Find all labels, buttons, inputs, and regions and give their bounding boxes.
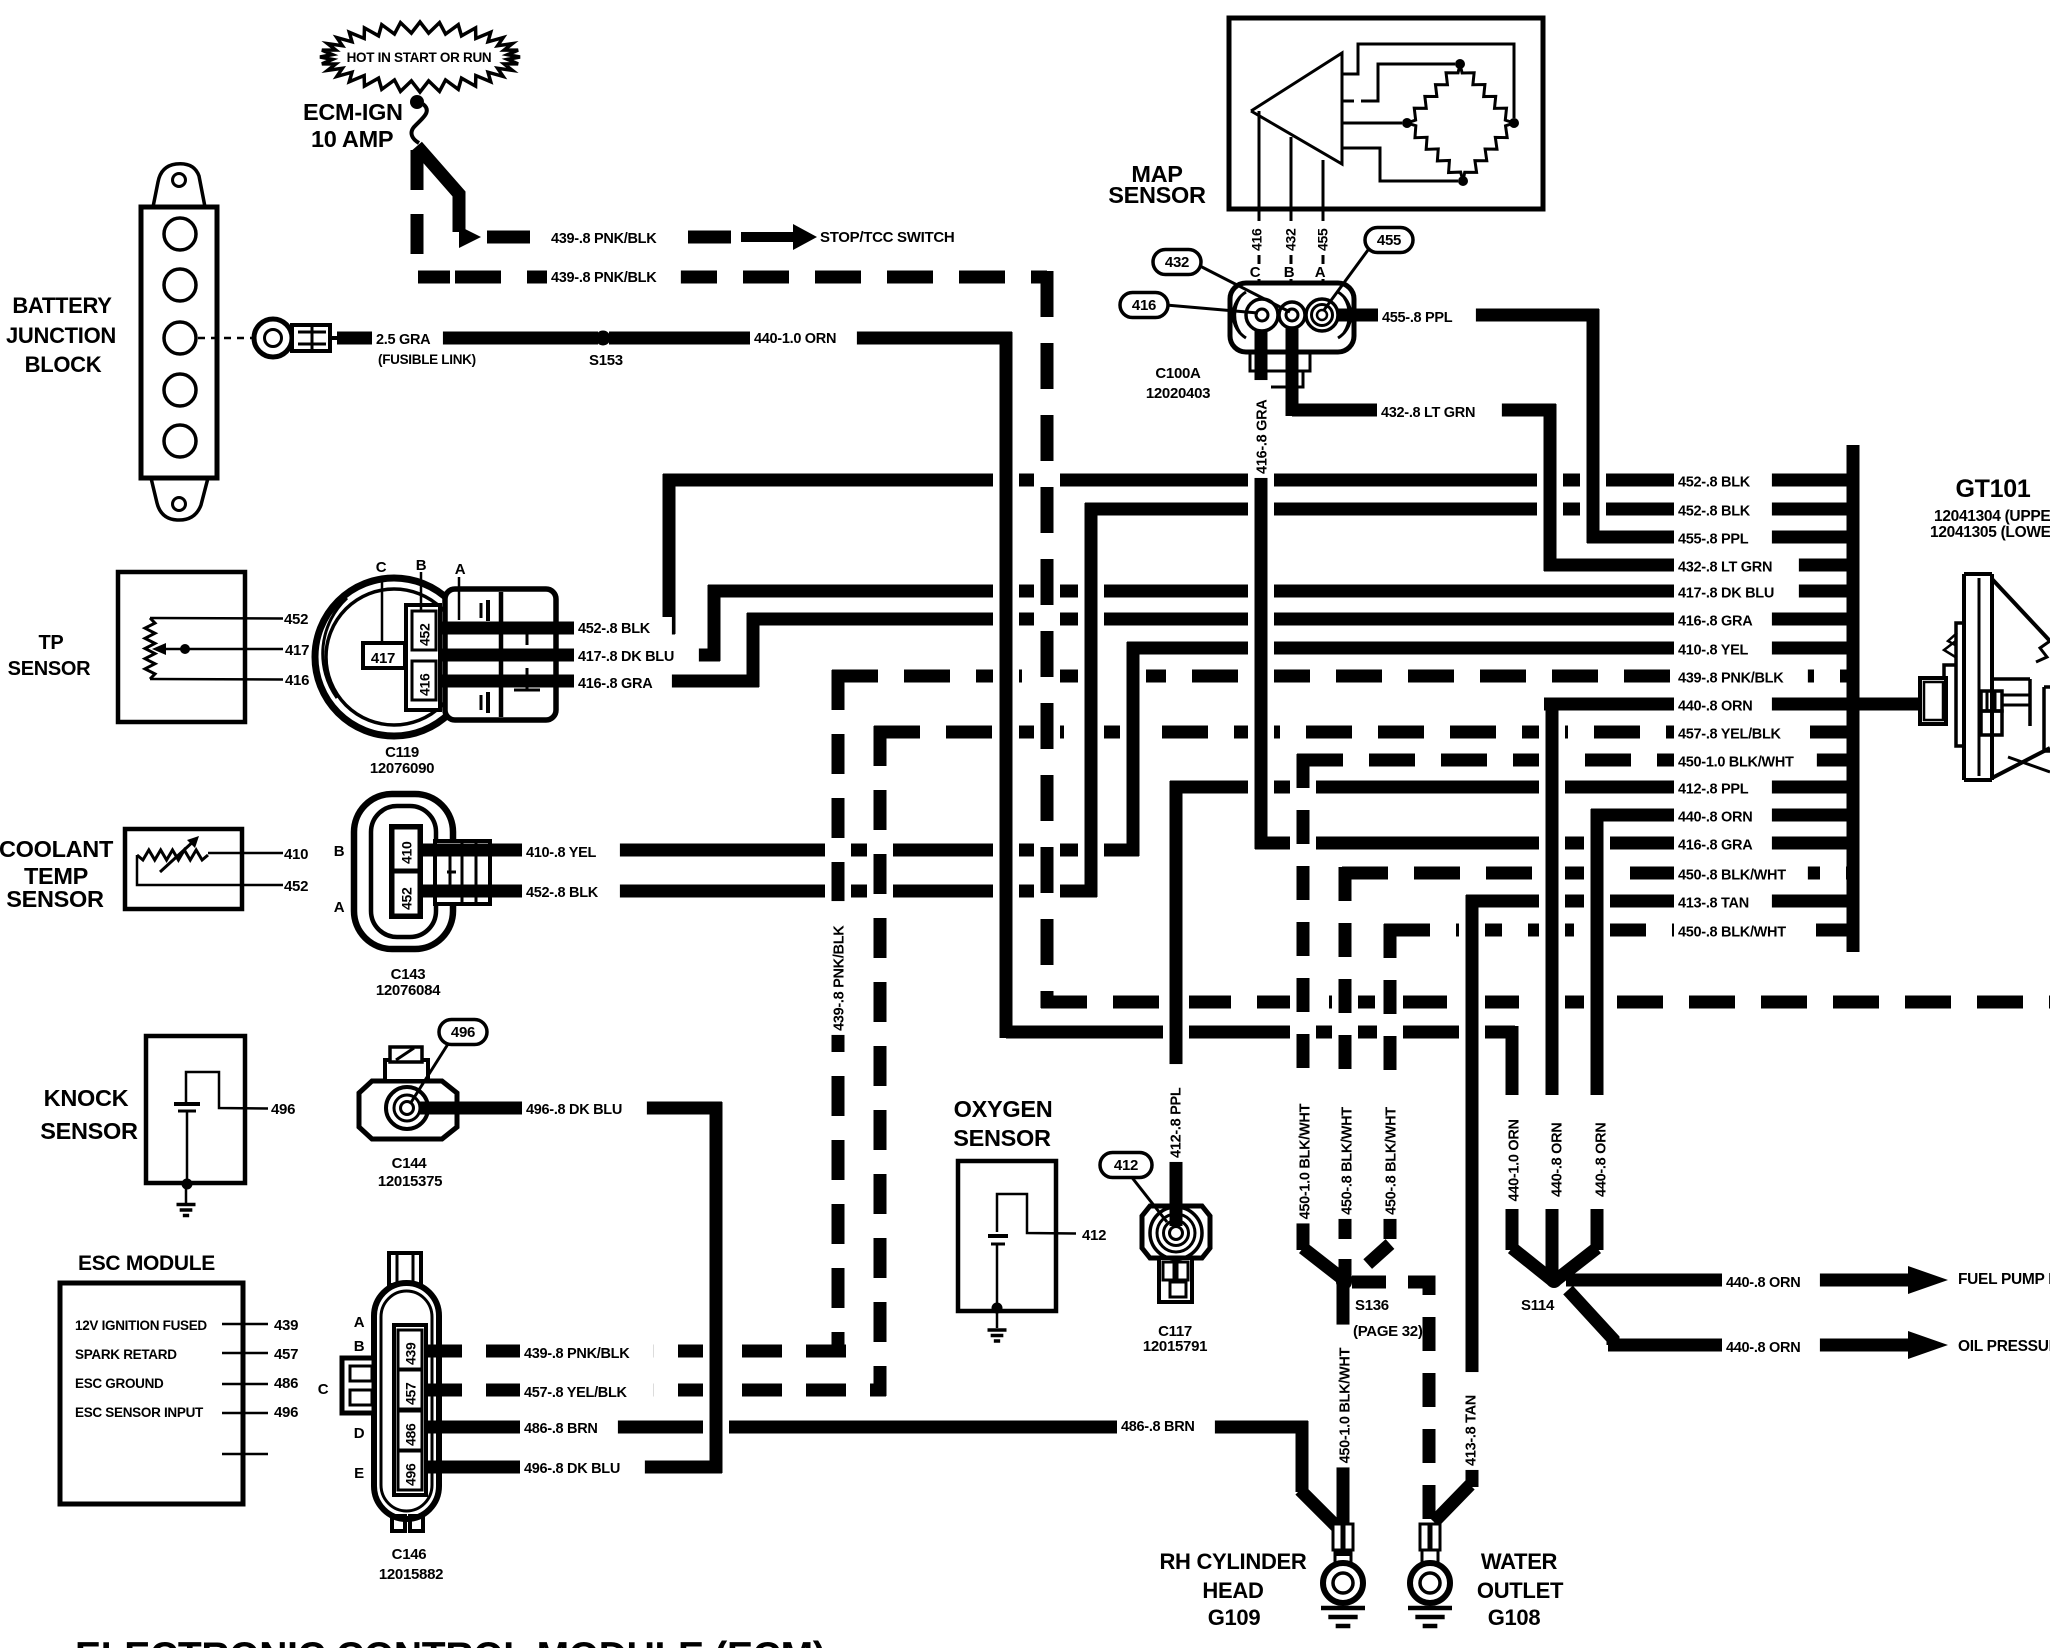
C119 pin letter B xyxy=(416,557,427,574)
ESC row label ESC SENSOR INPUT xyxy=(75,1405,204,1420)
connector C146 body xyxy=(342,1253,439,1531)
svg-text:432: 432 xyxy=(1165,254,1189,271)
svg-text:439-.8 PNK/BLK: 439-.8 PNK/BLK xyxy=(1678,671,1784,687)
ground terminal G108 xyxy=(1408,1524,1452,1626)
svg-text:486-.8 BRN: 486-.8 BRN xyxy=(1121,1419,1195,1435)
wire 432-.8 LT GRN horizontal xyxy=(1292,318,1556,416)
svg-text:410-.8 YEL: 410-.8 YEL xyxy=(1678,643,1749,659)
C119 pin letter C xyxy=(376,559,387,576)
svg-text:12020403: 12020403 xyxy=(1146,385,1210,402)
wire 432-.8 LT GRN vertical xyxy=(1544,404,1557,571)
svg-text:12015375: 12015375 xyxy=(378,1173,442,1190)
svg-text:ESC GROUND: ESC GROUND xyxy=(75,1376,164,1391)
svg-text:439: 439 xyxy=(403,1342,419,1365)
label wire 416-.8 GRA vertical xyxy=(1251,380,1271,478)
label FUEL PUMP RELAY xyxy=(1958,1271,2050,1288)
junction S153 xyxy=(596,331,611,346)
arrow to STOP/TCC SWITCH xyxy=(741,224,817,250)
svg-text:455: 455 xyxy=(1377,232,1401,249)
svg-text:450-.8 BLK/WHT: 450-.8 BLK/WHT xyxy=(1340,1107,1356,1215)
ESC pin number 457 xyxy=(274,1346,298,1363)
ESC pin leader 457 xyxy=(222,1352,268,1355)
label wire 410-.8 YEL xyxy=(522,841,620,866)
label OIL PRESSURE SWITCH xyxy=(1958,1338,2050,1355)
MAP lead label 416 xyxy=(1246,221,1266,255)
ring terminal (battery feed) xyxy=(254,319,337,357)
ESC pin leader 439 xyxy=(222,1323,268,1326)
junction S114 xyxy=(1546,1272,1562,1288)
svg-text:A: A xyxy=(1315,264,1326,281)
svg-text:450-1.0 BLK/WHT: 450-1.0 BLK/WHT xyxy=(1678,755,1794,771)
svg-text:C: C xyxy=(376,559,387,576)
battery junction block xyxy=(141,164,217,520)
coolant terminal label 452 xyxy=(284,878,308,895)
label wire 496-.8 DK BLU (ESC) xyxy=(520,1457,645,1482)
wire 439-.8 PNK/BLK long dashed run to right edge xyxy=(1041,996,2050,1009)
svg-text:450-1.0 BLK/WHT: 450-1.0 BLK/WHT xyxy=(1298,1103,1314,1219)
label HOT IN START OR RUN xyxy=(347,50,492,65)
MAP pin letter B xyxy=(1282,264,1297,281)
svg-text:455: 455 xyxy=(1315,228,1331,251)
ground (oxygen sensor) xyxy=(988,1308,1007,1341)
svg-text:BATTERY: BATTERY xyxy=(12,293,112,318)
bus wire 440-.8 ORN (lower) xyxy=(1591,809,1853,822)
label 450-1.0 BLK/WHT vertical xyxy=(1294,1081,1314,1224)
svg-text:496-.8 DK BLU: 496-.8 DK BLU xyxy=(524,1461,620,1477)
svg-text:HEAD: HEAD xyxy=(1202,1578,1263,1603)
svg-text:G108: G108 xyxy=(1488,1605,1541,1630)
svg-text:(FUSIBLE LINK): (FUSIBLE LINK) xyxy=(378,352,476,367)
svg-text:416: 416 xyxy=(417,673,433,696)
wire 440-.8 ORN bus to distributor xyxy=(1853,698,1922,711)
bus wire 417-.8 DK BLU xyxy=(708,585,1853,598)
svg-text:SENSOR: SENSOR xyxy=(8,658,92,680)
svg-text:ELECTRONIC CONTROL MODULE (ECM: ELECTRONIC CONTROL MODULE (ECM) xyxy=(75,1635,825,1648)
knock terminal label 496 xyxy=(271,1101,295,1118)
label C100A xyxy=(1146,365,1210,402)
bus wire 413-.8 TAN xyxy=(1466,895,1853,908)
svg-text:C146: C146 xyxy=(392,1546,427,1563)
MAP pin letter A xyxy=(1313,264,1328,281)
label wire 439 top xyxy=(547,227,681,252)
svg-text:452-.8 BLK: 452-.8 BLK xyxy=(1678,504,1751,520)
connector C119 body xyxy=(315,578,556,736)
label wire 416-.8 GRA (TP) xyxy=(574,672,672,697)
label wire 452-.8 BLK (coolant) xyxy=(522,881,620,906)
bus wire 416-.8 GRA (TP) xyxy=(747,613,1853,626)
wire 439-.8 PNK/BLK branch 2 dashed run xyxy=(417,150,1047,277)
svg-text:455-.8 PPL: 455-.8 PPL xyxy=(1382,310,1453,326)
connector C117 body xyxy=(1142,1206,1210,1302)
svg-text:12041304 (UPPER): 12041304 (UPPER) xyxy=(1934,508,2050,525)
C143 pin letter B xyxy=(334,843,345,860)
svg-text:SPARK RETARD: SPARK RETARD xyxy=(75,1347,177,1362)
svg-text:SENSOR: SENSOR xyxy=(6,886,104,912)
label C143 xyxy=(376,966,441,999)
svg-text:ECM-IGN: ECM-IGN xyxy=(303,99,403,125)
label 440-.8 ORN oil pressure xyxy=(1722,1336,1820,1361)
svg-text:E: E xyxy=(354,1465,364,1482)
svg-text:D: D xyxy=(354,1425,365,1442)
heading WATER OUTLET G108 xyxy=(1477,1549,1564,1630)
svg-text:452: 452 xyxy=(284,878,308,895)
label C146 xyxy=(379,1546,443,1583)
wire 486-.8 BRN drop to G109 xyxy=(1300,1421,1338,1528)
svg-text:B: B xyxy=(416,557,427,574)
ESC pin number 486 xyxy=(274,1375,298,1392)
wire 452-.8 BLK (TP) horizontal xyxy=(436,622,675,635)
svg-text:GT101: GT101 xyxy=(1956,475,2031,503)
callout 412 (C117) xyxy=(1100,1153,1167,1223)
svg-text:432-.8 LT GRN: 432-.8 LT GRN xyxy=(1381,405,1475,421)
wire 416-.8 GRA (MAP) vertical xyxy=(1255,318,1268,849)
label S114 xyxy=(1521,1297,1555,1314)
svg-text:C100A: C100A xyxy=(1155,365,1201,382)
svg-text:HOT IN START OR RUN: HOT IN START OR RUN xyxy=(347,50,492,65)
wire fuse output to STOP/TCC branch xyxy=(417,146,459,232)
svg-text:496: 496 xyxy=(274,1404,298,1421)
bus wire 452-.8 BLK (TP) xyxy=(663,474,1853,487)
ESC pin leader 496 xyxy=(222,1412,268,1415)
svg-text:412-.8 PPL: 412-.8 PPL xyxy=(1678,782,1749,798)
svg-text:OIL PRESSURE SWITCH: OIL PRESSURE SWITCH xyxy=(1958,1338,2050,1355)
wire 412-.8 PPL vertical xyxy=(1170,781,1183,1226)
svg-text:12041305 (LOWER): 12041305 (LOWER) xyxy=(1930,524,2050,541)
svg-text:452: 452 xyxy=(417,623,433,646)
svg-text:432-.8 LT GRN: 432-.8 LT GRN xyxy=(1678,560,1772,576)
svg-text:439-.8 PNK/BLK: 439-.8 PNK/BLK xyxy=(832,925,848,1031)
ESC pin number 496 xyxy=(274,1404,298,1421)
power source bubble HOT IN START OR RUN xyxy=(320,22,520,92)
wire 450-1.0 BLK/WHT below S136 to G109 xyxy=(1337,1282,1350,1556)
C119 pin leader C xyxy=(381,576,384,643)
bus wire 432-.8 LT GRN xyxy=(1544,559,1853,572)
svg-text:12076084: 12076084 xyxy=(376,982,441,999)
svg-text:S153: S153 xyxy=(589,352,623,369)
svg-text:416-.8 GRA: 416-.8 GRA xyxy=(578,676,653,692)
ground terminal G109 xyxy=(1321,1524,1365,1626)
svg-text:450-.8 BLK/WHT: 450-.8 BLK/WHT xyxy=(1678,925,1786,941)
svg-text:440-.8 ORN: 440-.8 ORN xyxy=(1550,1123,1566,1197)
svg-text:FUEL PUMP RELAY: FUEL PUMP RELAY xyxy=(1958,1271,2050,1288)
clipped caption ELECTRONIC CONTROL MODULE (ECM) xyxy=(75,1635,825,1648)
svg-text:WATER: WATER xyxy=(1481,1549,1558,1574)
svg-text:C: C xyxy=(318,1381,329,1398)
wire 440-1.0 ORN (battery feed) horizontal xyxy=(609,332,1012,345)
label 10 AMP xyxy=(311,126,393,152)
heading BATTERY JUNCTION BLOCK xyxy=(6,293,116,377)
svg-text:410: 410 xyxy=(284,846,308,863)
svg-text:440-1.0 ORN: 440-1.0 ORN xyxy=(1507,1119,1523,1201)
wire 450-1.0 BLK/WHT vertical (to S136) xyxy=(1303,754,1344,1280)
MAP sensor box with amplifier and bridge xyxy=(1229,18,1543,283)
svg-text:452: 452 xyxy=(399,887,415,910)
bus wire 455-.8 PPL xyxy=(1587,531,1853,544)
svg-text:12V IGNITION FUSED: 12V IGNITION FUSED xyxy=(75,1318,207,1333)
wire 496-.8 DK BLU vertical (knock to ESC) xyxy=(710,1102,723,1473)
svg-text:OUTLET: OUTLET xyxy=(1477,1578,1564,1603)
ESC pin leader (spare) xyxy=(222,1453,268,1456)
label 450-.8 BLK/WHT vertical mid xyxy=(1336,1085,1356,1219)
label S153 xyxy=(589,352,623,369)
knock sensor internal junction dot xyxy=(182,1179,193,1190)
svg-text:C144: C144 xyxy=(392,1155,428,1172)
svg-text:A: A xyxy=(354,1314,365,1331)
svg-text:B: B xyxy=(354,1338,365,1355)
heading ESC MODULE xyxy=(78,1252,215,1275)
label 450-.8 BLK/WHT vertical right xyxy=(1380,1085,1400,1219)
label wire 439-.8 PNK/BLK (ESC) xyxy=(520,1342,654,1367)
wire 439-.8 PNK/BLK (ESC) dashed xyxy=(422,1345,846,1358)
wire 455-.8 PPL vertical xyxy=(1587,309,1600,543)
wire 440-.8 ORN vertical (lower bus line to S114) xyxy=(1556,809,1597,1280)
label 12041304 (UPPER) xyxy=(1934,508,2050,525)
label 440-1.0 ORN xyxy=(750,327,857,352)
wire 440-.8 ORN vertical (bus line to S114) xyxy=(1546,698,1559,1278)
label ECM-IGN xyxy=(303,99,403,125)
svg-text:C143: C143 xyxy=(391,966,426,983)
connector C117 pin rings xyxy=(1150,1207,1202,1259)
connector C100A shell xyxy=(1230,283,1354,387)
svg-text:417-.8 DK BLU: 417-.8 DK BLU xyxy=(578,649,674,665)
label wire 486-.8 BRN (right) xyxy=(1117,1415,1215,1440)
C146 pin letter C xyxy=(318,1381,329,1398)
svg-text:496: 496 xyxy=(451,1024,475,1041)
ECM bus wire labels xyxy=(1674,471,1817,946)
wire 410-.8 YEL (coolant) horizontal xyxy=(418,844,1139,857)
svg-text:457: 457 xyxy=(274,1346,298,1363)
label wire 486-.8 BRN (ESC) xyxy=(520,1417,618,1442)
svg-text:440-.8 ORN: 440-.8 ORN xyxy=(1726,1275,1800,1291)
label 440-.8 ORN vertical mid xyxy=(1546,1103,1566,1201)
label (FUSIBLE LINK) xyxy=(378,352,476,367)
wire 416-.8 GRA (TP) horizontal xyxy=(436,675,759,688)
arrow to FUEL PUMP RELAY xyxy=(1908,1266,1948,1294)
svg-text:412-.8 PPL: 412-.8 PPL xyxy=(1169,1087,1185,1158)
label wire 439-.8 PNK/BLK vertical xyxy=(828,901,848,1035)
ESC row label ESC GROUND xyxy=(75,1376,164,1391)
C143 pin cavities 410/452 xyxy=(391,826,421,917)
heading MAP SENSOR xyxy=(1108,161,1206,208)
wire 440-.8 ORN to oil pressure switch xyxy=(1568,1290,1910,1345)
C146 pin letter E xyxy=(354,1465,364,1482)
label S136 xyxy=(1353,1297,1423,1340)
svg-text:G109: G109 xyxy=(1208,1605,1261,1630)
label C117 xyxy=(1143,1323,1207,1355)
fuse ECM-IGN 10 AMP xyxy=(410,95,427,143)
bus wire 412-.8 PPL xyxy=(1170,781,1853,794)
wire 457-.8 YEL/BLK (ESC) dashed xyxy=(422,1384,886,1397)
oxygen terminal label 412 xyxy=(1082,1227,1106,1244)
heading COOLANT TEMP SENSOR xyxy=(0,836,114,912)
svg-text:486: 486 xyxy=(274,1375,298,1392)
svg-text:417: 417 xyxy=(371,650,395,667)
C143 pin letter A xyxy=(334,899,345,916)
svg-text:STOP/TCC SWITCH: STOP/TCC SWITCH xyxy=(820,229,954,246)
connector C143 body xyxy=(354,794,490,949)
C146 pin cavities 439/457/486/496 xyxy=(394,1325,426,1495)
svg-text:410-.8 YEL: 410-.8 YEL xyxy=(526,845,597,861)
svg-text:496: 496 xyxy=(403,1463,419,1486)
label C144 xyxy=(378,1155,442,1190)
svg-text:450-1.0 BLK/WHT: 450-1.0 BLK/WHT xyxy=(1338,1347,1354,1463)
callout 416 (MAP C) xyxy=(1120,293,1258,318)
label wire 417-.8 DK BLU (TP) xyxy=(574,645,699,670)
bus wire 439-.8 PNK/BLK dashed xyxy=(832,670,1853,683)
bus wire 410-.8 YEL xyxy=(1127,642,1853,655)
label wire 457-.8 YEL/BLK (ESC) xyxy=(520,1381,654,1406)
label 12041305 (LOWER) xyxy=(1930,524,2050,541)
svg-text:440-.8 ORN: 440-.8 ORN xyxy=(1594,1123,1610,1197)
svg-text:486-.8 BRN: 486-.8 BRN xyxy=(524,1421,598,1437)
label GT101 xyxy=(1956,475,2031,503)
C146 pin letter D xyxy=(354,1425,365,1442)
heading OXYGEN SENSOR xyxy=(953,1096,1052,1151)
svg-text:417-.8 DK BLU: 417-.8 DK BLU xyxy=(1678,586,1774,602)
wire 455-.8 PPL horizontal xyxy=(1331,309,1599,322)
C119 pin leader A xyxy=(458,577,461,620)
svg-text:452: 452 xyxy=(284,611,308,628)
label wire 455-.8 PPL xyxy=(1378,306,1476,331)
TP terminal label 416 xyxy=(285,672,309,689)
C146 pin letter B xyxy=(354,1338,365,1355)
TP terminal label 452 xyxy=(284,611,308,628)
svg-text:12076090: 12076090 xyxy=(370,760,434,777)
svg-text:416-.8 GRA: 416-.8 GRA xyxy=(1678,838,1753,854)
svg-text:412: 412 xyxy=(1082,1227,1106,1244)
label wire 412-.8 PPL vertical xyxy=(1165,1064,1185,1162)
MAP lead label 455 xyxy=(1312,221,1332,255)
svg-text:ESC MODULE: ESC MODULE xyxy=(78,1252,215,1275)
label wire 452-.8 BLK (TP) xyxy=(574,617,672,642)
svg-text:410: 410 xyxy=(399,841,415,864)
wire 440-1.0 ORN vertical (to S114) xyxy=(1512,1026,1552,1280)
label 440-.8 ORN vertical right xyxy=(1590,1103,1610,1201)
leader from junction block to ring terminal xyxy=(198,337,252,340)
svg-text:486: 486 xyxy=(403,1423,419,1446)
wire crossover gaps (no connection) xyxy=(703,471,1610,1436)
wire 486-.8 BRN (ESC ground) xyxy=(422,1421,1308,1434)
svg-text:416-.8 GRA: 416-.8 GRA xyxy=(1678,614,1753,630)
bus wire 416-.8 GRA (MAP) xyxy=(1255,837,1853,850)
svg-text:416: 416 xyxy=(1249,228,1265,251)
svg-text:440-.8 ORN: 440-.8 ORN xyxy=(1678,699,1752,715)
TP sensor box with potentiometer xyxy=(118,572,283,722)
svg-text:2.5 GRA: 2.5 GRA xyxy=(376,332,431,348)
svg-text:OXYGEN: OXYGEN xyxy=(954,1096,1053,1122)
callout 455 (MAP A) xyxy=(1324,228,1413,311)
svg-text:KNOCK: KNOCK xyxy=(44,1085,129,1111)
svg-text:440-1.0 ORN: 440-1.0 ORN xyxy=(754,331,836,347)
wire 452-.8 BLK (coolant) riser xyxy=(1085,503,1098,897)
wire 417-.8 DK BLU (TP) horizontal xyxy=(405,649,720,662)
svg-text:452-.8 BLK: 452-.8 BLK xyxy=(578,621,651,637)
wire 410-.8 YEL (coolant) riser xyxy=(1127,642,1140,856)
svg-text:440-.8 ORN: 440-.8 ORN xyxy=(1726,1340,1800,1356)
wire 2.5 GRA fusible link xyxy=(337,332,598,345)
coolant temp sensor box with thermistor xyxy=(125,829,283,909)
svg-text:413-.8 TAN: 413-.8 TAN xyxy=(1678,896,1749,912)
svg-text:413-.8 TAN: 413-.8 TAN xyxy=(1464,1395,1480,1466)
distributor GT101 body xyxy=(1920,574,2050,780)
svg-text:452-.8 BLK: 452-.8 BLK xyxy=(1678,475,1751,491)
svg-text:COOLANT: COOLANT xyxy=(0,836,114,862)
svg-text:BLOCK: BLOCK xyxy=(25,352,102,377)
label wire 432-.8 LT GRN xyxy=(1377,401,1502,426)
label wire 439 second xyxy=(547,266,681,291)
label 2.5 GRA xyxy=(372,328,443,353)
svg-text:455-.8 PPL: 455-.8 PPL xyxy=(1678,532,1749,548)
wire 440-.8 ORN to fuel pump relay xyxy=(1566,1274,1910,1287)
ESC row label SPARK RETARD xyxy=(75,1347,177,1362)
C119 pin leader B xyxy=(420,572,423,611)
svg-text:B: B xyxy=(1284,264,1295,281)
label 450-1.0 BLK/WHT to G109 xyxy=(1334,1325,1354,1468)
svg-text:RH CYLINDER: RH CYLINDER xyxy=(1159,1549,1306,1574)
bus wire 450-.8 BLK/WHT dashed (upper) xyxy=(1342,867,1853,880)
svg-text:457-.8 YEL/BLK: 457-.8 YEL/BLK xyxy=(524,1385,628,1401)
wire 450-.8 BLK/WHT vertical (to S136) right xyxy=(1350,924,1390,1280)
ESC module box xyxy=(60,1283,243,1504)
wire 450-.8 BLK/WHT from S136 to water outlet xyxy=(1352,1282,1429,1526)
svg-text:12015882: 12015882 xyxy=(379,1566,443,1583)
oxygen sensor box with sense cell xyxy=(958,1161,1076,1311)
svg-text:A: A xyxy=(455,561,466,578)
wire 496-.8 DK BLU (knock) horizontal xyxy=(420,1102,722,1115)
TP terminal label 417 xyxy=(285,642,309,659)
svg-text:432: 432 xyxy=(1283,228,1299,251)
ground (knock sensor) xyxy=(177,1184,196,1216)
coolant terminal label 410 xyxy=(284,846,308,863)
connector C144 body xyxy=(359,1047,457,1139)
svg-text:S136: S136 xyxy=(1355,1297,1389,1314)
wire 452-.8 BLK (TP) riser xyxy=(663,474,676,634)
svg-text:SENSOR: SENSOR xyxy=(40,1118,138,1144)
oxygen sensor junction dot xyxy=(992,1303,1003,1314)
junction S136 xyxy=(1336,1274,1352,1290)
arrow to OIL PRESSURE SWITCH xyxy=(1908,1331,1948,1359)
ESC pin leader 486 xyxy=(222,1383,268,1386)
wire 439-.8 PNK/BLK vertical (bus to ESC) xyxy=(832,670,845,1357)
C119 pin cavities 452/417/416 xyxy=(363,605,440,710)
C100A pins C/B/A xyxy=(1246,299,1338,331)
svg-text:416: 416 xyxy=(1132,297,1156,314)
svg-text:457-.8 YEL/BLK: 457-.8 YEL/BLK xyxy=(1678,727,1782,743)
svg-text:450-.8 BLK/WHT: 450-.8 BLK/WHT xyxy=(1384,1107,1400,1215)
wire 452-.8 BLK (coolant) horizontal xyxy=(418,885,1097,898)
svg-text:452-.8 BLK: 452-.8 BLK xyxy=(526,885,599,901)
label STOP/TCC SWITCH xyxy=(820,229,954,246)
label wire 496-.8 DK BLU (knock) xyxy=(522,1098,647,1123)
svg-text:412: 412 xyxy=(1114,1157,1138,1174)
bus wire 450-1.0 BLK/WHT dashed xyxy=(1297,754,1853,767)
MAP pin letter C xyxy=(1248,264,1263,281)
svg-text:439-.8 PNK/BLK: 439-.8 PNK/BLK xyxy=(551,270,657,286)
svg-text:ESC SENSOR INPUT: ESC SENSOR INPUT xyxy=(75,1405,204,1420)
svg-text:JUNCTION: JUNCTION xyxy=(6,323,116,348)
ECM bus vertical xyxy=(1847,445,1860,952)
wire 417-.8 DK BLU (TP) riser xyxy=(708,585,721,661)
label 413-.8 TAN vertical xyxy=(1460,1372,1480,1470)
bus wire 452-.8 BLK (coolant) xyxy=(1085,503,1853,516)
svg-text:C119: C119 xyxy=(385,744,419,761)
wire 450-.8 BLK/WHT vertical (to S136) middle xyxy=(1339,867,1352,1278)
svg-text:457: 457 xyxy=(403,1382,419,1405)
bus wire 440-.8 ORN xyxy=(1544,698,1853,711)
svg-text:12015791: 12015791 xyxy=(1143,1338,1207,1355)
label 440-1.0 ORN vertical xyxy=(1503,1099,1523,1206)
svg-text:10 AMP: 10 AMP xyxy=(311,126,393,152)
